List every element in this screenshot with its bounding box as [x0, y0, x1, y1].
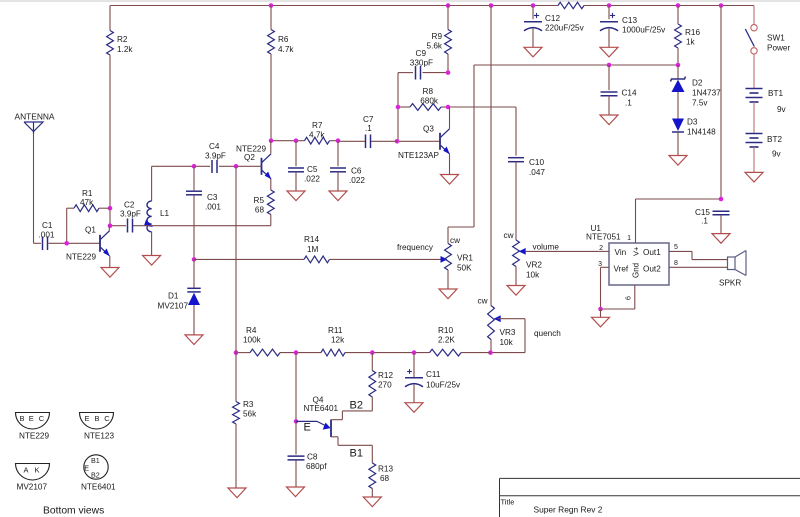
- svg-text:C7: C7: [363, 115, 374, 124]
- capacitor C5: [288, 165, 320, 184]
- capacitor C2: [120, 201, 141, 233]
- node top rail junction x=491: [489, 3, 494, 8]
- capacitor C3: [186, 191, 221, 211]
- svg-text:C8: C8: [307, 453, 318, 462]
- wire VR2 bottom: [515, 267, 517, 286]
- svg-text:C10: C10: [529, 158, 544, 167]
- svg-text:3: 3: [598, 261, 602, 268]
- ground Q1 emitter: [101, 268, 119, 278]
- svg-text:VR3: VR3: [500, 328, 516, 337]
- svg-text:C5: C5: [307, 165, 318, 174]
- svg-text:B1: B1: [350, 448, 363, 460]
- svg-text:C9: C9: [416, 49, 427, 58]
- wire SW1 to BT1: [753, 54, 755, 89]
- wire R14 left: [194, 258, 304, 260]
- wire C14 to ground: [608, 96, 610, 115]
- wire R7 right: [330, 140, 339, 142]
- border top edge: [0, 0, 800, 2]
- svg-text:5: 5: [674, 244, 678, 251]
- resistor R3: [233, 400, 258, 424]
- resistor R9: [427, 30, 452, 55]
- svg-text:56k: 56k: [243, 410, 257, 419]
- wire R5 bottom: [270, 215, 272, 226]
- wire U1 pin5 to speaker: [669, 244, 728, 260]
- svg-text:4.7k: 4.7k: [309, 131, 325, 140]
- svg-text:270: 270: [378, 381, 392, 390]
- wire R1 right: [99, 207, 110, 209]
- wire C8 top: [295, 421, 297, 454]
- wire C5 to ground: [295, 172, 297, 191]
- svg-text:D2: D2: [692, 79, 703, 88]
- svg-text:V+: V+: [632, 246, 641, 256]
- svg-text:cw: cw: [478, 297, 488, 306]
- node R8 left junction: [396, 105, 401, 110]
- capacitor C7: [363, 115, 374, 148]
- svg-text:6: 6: [626, 296, 633, 300]
- transistor Q4 NTE6401: [296, 396, 363, 460]
- legend NTE229 pinout: [16, 413, 50, 441]
- svg-text:3.9pF: 3.9pF: [120, 210, 141, 219]
- resistor R13: [369, 463, 394, 489]
- wire U1 gnd lead: [626, 285, 635, 309]
- ground U1: [592, 317, 610, 327]
- svg-text:volume: volume: [533, 243, 560, 252]
- resistor R16: [675, 24, 701, 48]
- wire R13 top: [371, 445, 373, 463]
- svg-text:1N4148: 1N4148: [687, 128, 716, 137]
- legend MV2107 pinout: [16, 464, 50, 492]
- svg-text:L1: L1: [160, 209, 170, 218]
- wire D1 to ground: [193, 305, 195, 335]
- wire C12 top: [532, 6, 534, 20]
- wire C3 bottom to D1 node: [193, 195, 195, 260]
- svg-text:K: K: [35, 466, 40, 475]
- svg-text:.1: .1: [701, 217, 708, 226]
- speaker SPKR: [719, 251, 746, 288]
- wire U1 ground stub: [600, 309, 602, 317]
- wire Q2 collector: [270, 141, 272, 154]
- svg-text:MV2107: MV2107: [17, 483, 48, 492]
- svg-text:C13: C13: [622, 16, 637, 25]
- svg-text:C12: C12: [545, 14, 560, 23]
- wire C13 to ground: [608, 29, 610, 48]
- wire R2 bottom to Q1 collector node: [109, 55, 111, 226]
- op-amp U1 NTE7051 box: [586, 224, 669, 285]
- svg-text:D3: D3: [687, 118, 698, 127]
- wire bias row: [236, 352, 491, 354]
- svg-text:Gnd: Gnd: [632, 263, 641, 278]
- ground VR1: [439, 289, 457, 299]
- wire L1 top: [151, 166, 153, 201]
- wire BT1 to BT2: [753, 102, 755, 134]
- transistor Q3: [398, 125, 450, 161]
- wire C14 top: [608, 65, 610, 90]
- capacitor C9: [410, 49, 433, 80]
- svg-text:A: A: [24, 466, 29, 475]
- capacitor C4: [205, 142, 226, 173]
- wire C11 top: [413, 353, 415, 377]
- ground C15: [712, 234, 730, 244]
- inductor L1: [147, 201, 170, 232]
- svg-text:R6: R6: [278, 35, 289, 44]
- svg-text:47k: 47k: [80, 198, 94, 207]
- wire VR2 wiper to U1 pin2: [526, 243, 597, 252]
- svg-text:10uF/25v: 10uF/25v: [426, 381, 461, 390]
- ground C5: [287, 191, 305, 201]
- ground D1: [185, 335, 203, 345]
- wire Q2 base node to bias row: [235, 166, 237, 352]
- wire R12 top: [371, 353, 373, 371]
- wire C12 to ground: [532, 29, 534, 48]
- wire R16 node horizontal: [474, 64, 678, 66]
- svg-text:9v: 9v: [777, 105, 787, 114]
- node C6 junction: [336, 138, 341, 143]
- resistor R12: [369, 371, 394, 398]
- svg-text:R9: R9: [432, 32, 443, 41]
- svg-text:10k: 10k: [526, 271, 540, 280]
- svg-text:68: 68: [380, 474, 390, 483]
- svg-text:NTE6401: NTE6401: [81, 483, 116, 492]
- svg-text:7.5v: 7.5v: [692, 99, 708, 108]
- svg-text:NTE6401: NTE6401: [304, 404, 339, 413]
- svg-text:R3: R3: [243, 400, 254, 409]
- wire top supply rail: [110, 5, 754, 7]
- potentiometer VR2: [504, 231, 543, 280]
- ground C8: [287, 487, 305, 497]
- wire R9 bottom to C9 node: [447, 54, 449, 73]
- legend NTE123 pinout: [80, 413, 115, 441]
- svg-text:9v: 9v: [772, 150, 782, 159]
- svg-text:R11: R11: [328, 326, 343, 335]
- wire R9 top: [447, 6, 449, 30]
- node top rail junction x=721: [719, 3, 724, 8]
- node R2/Q1 collector junction: [108, 223, 113, 228]
- svg-text:R7: R7: [312, 121, 323, 130]
- battery BT2: [746, 134, 783, 159]
- switch SW1: [745, 25, 790, 55]
- resistor R2: [107, 31, 134, 56]
- resistor R5: [254, 190, 275, 215]
- svg-text:3.9pF: 3.9pF: [205, 152, 226, 161]
- legend NTE6401 pinout: [81, 455, 116, 492]
- wire C3 top: [193, 166, 195, 191]
- ground D3: [669, 156, 687, 166]
- svg-text:E: E: [84, 464, 89, 473]
- node top rail junction x=448: [446, 3, 451, 8]
- wire U1 pin2 lead: [597, 245, 609, 252]
- svg-text:B2: B2: [91, 471, 100, 480]
- wire C11 to ground: [413, 385, 415, 403]
- svg-text:.001: .001: [39, 231, 55, 240]
- wire Q4 B2 to R12: [331, 411, 372, 420]
- svg-text:E: E: [304, 422, 311, 434]
- wire C7 left: [338, 140, 365, 142]
- wire R6 top: [270, 6, 272, 30]
- transistor Q1: [66, 226, 110, 262]
- ground L1: [143, 256, 161, 266]
- ground VR2: [507, 286, 525, 296]
- resistor R6: [268, 30, 295, 55]
- node L1 tap arrow: [144, 220, 153, 227]
- svg-text:R13: R13: [378, 465, 393, 474]
- svg-text:R14: R14: [304, 235, 319, 244]
- svg-text:C2: C2: [124, 201, 135, 210]
- svg-text:SW1: SW1: [767, 34, 785, 43]
- wire E branch: [295, 353, 297, 422]
- resistor R11: [321, 326, 345, 356]
- svg-text:1M: 1M: [307, 245, 319, 254]
- wire Q2 collector row: [271, 140, 305, 142]
- ground BT2: [745, 172, 763, 182]
- svg-text:VR1: VR1: [457, 254, 473, 263]
- title block: [500, 478, 800, 517]
- svg-text:Power: Power: [767, 44, 790, 53]
- battery BT1: [746, 89, 787, 115]
- node R4/R11 junction: [294, 350, 299, 355]
- svg-text:1N4737: 1N4737: [692, 89, 721, 98]
- svg-text:680k: 680k: [420, 97, 439, 106]
- diode D2 zener: [671, 77, 722, 108]
- resistor R7: [305, 121, 330, 144]
- node U1 ground junction: [598, 307, 603, 312]
- svg-text:cw: cw: [504, 231, 514, 240]
- node top rail junction x=678: [676, 3, 681, 8]
- svg-text:ANTENNA: ANTENNA: [15, 112, 55, 122]
- wire R1 left loop: [67, 208, 74, 243]
- node C5 junction: [294, 138, 299, 143]
- wire D2 to D3: [677, 92, 679, 119]
- svg-text:2: 2: [599, 245, 603, 252]
- svg-text:R10: R10: [438, 326, 453, 335]
- node R8/Q3 collector junction: [446, 105, 451, 110]
- capacitor C14: [601, 89, 637, 108]
- svg-text:BT2: BT2: [767, 135, 782, 144]
- wire BT2 to ground: [753, 147, 755, 172]
- capacitor C12: [524, 13, 585, 33]
- wire R2 top: [109, 6, 111, 31]
- svg-text:NTE229: NTE229: [66, 253, 96, 262]
- wire C6 top: [337, 141, 339, 167]
- resistor R14: [304, 235, 330, 263]
- diode D3: [672, 118, 716, 137]
- wire C7 right: [371, 140, 397, 142]
- wire D2 top: [677, 65, 679, 79]
- svg-text:C: C: [104, 414, 110, 423]
- svg-text:NTE7051: NTE7051: [586, 233, 621, 242]
- svg-text:SPKR: SPKR: [719, 279, 741, 288]
- svg-text:R4: R4: [246, 326, 257, 335]
- potentiometer VR1: [445, 236, 474, 273]
- node C4/Q2 base junction: [234, 164, 239, 169]
- ground Q3 emitter: [441, 175, 459, 185]
- node top rail junction x=609: [607, 3, 612, 8]
- svg-text:R2: R2: [117, 35, 128, 44]
- wire R14 right to VR1 wiper: [330, 243, 448, 263]
- wire Q3 base: [397, 140, 440, 142]
- capacitor C15: [695, 208, 730, 226]
- node R16/D2 junction: [676, 63, 681, 68]
- svg-text:C4: C4: [209, 142, 220, 151]
- antenna ANTENNA: [15, 112, 55, 134]
- capacitor C10: [508, 158, 545, 177]
- svg-text:Vref: Vref: [614, 265, 629, 274]
- node C15 junction: [719, 197, 724, 202]
- node top rail junction x=533: [531, 3, 536, 8]
- svg-text:R8: R8: [423, 87, 434, 96]
- svg-text:330pF: 330pF: [410, 59, 433, 68]
- capacitor C8: [288, 453, 328, 472]
- capacitor C1: [39, 221, 55, 250]
- ground C13: [600, 47, 618, 57]
- node R4 left junction: [234, 350, 239, 355]
- wire C9 right: [423, 72, 449, 74]
- node C3/C4 junction: [192, 164, 197, 169]
- node VR3 bottom junction: [488, 350, 493, 355]
- svg-text:.1: .1: [365, 124, 372, 133]
- wire R8 right: [441, 106, 448, 108]
- svg-text:12k: 12k: [331, 336, 345, 345]
- svg-text:2.2K: 2.2K: [438, 336, 455, 345]
- wire R16 top: [677, 6, 679, 25]
- svg-text:8: 8: [674, 260, 678, 267]
- svg-text:C1: C1: [42, 221, 53, 230]
- ground C6: [329, 191, 347, 201]
- wire antenna down: [34, 134, 42, 244]
- node C7/Q3 base junction: [395, 139, 400, 144]
- wire vertical to VR1 feed: [448, 65, 474, 243]
- svg-text:Q3: Q3: [423, 125, 434, 134]
- wire C8 to ground: [295, 460, 297, 487]
- capacitor C11: [405, 369, 461, 389]
- svg-text:NTE229: NTE229: [19, 432, 49, 441]
- transistor Q2: [236, 145, 271, 180]
- wire Q1 collector row: [110, 225, 271, 227]
- wire R8 node to C10: [448, 107, 516, 156]
- svg-text:C6: C6: [351, 167, 362, 176]
- ground C12: [524, 47, 542, 57]
- svg-text:.022: .022: [349, 176, 365, 185]
- svg-text:R16: R16: [685, 28, 700, 37]
- svg-text:.1: .1: [625, 99, 632, 108]
- node R12 junction: [370, 350, 375, 355]
- label quench: [534, 329, 561, 338]
- svg-text:B2: B2: [350, 400, 363, 412]
- svg-text:10k: 10k: [500, 338, 514, 347]
- potentiometer VR3: [478, 297, 516, 348]
- svg-text:C3: C3: [207, 193, 218, 202]
- wire U1 pin1: [627, 199, 721, 243]
- svg-text:1: 1: [627, 235, 631, 242]
- wire R6 bottom to Q2 collector node: [270, 54, 272, 141]
- wire U1 pin3 lead: [598, 261, 609, 268]
- ground R13: [363, 497, 381, 507]
- svg-text:Title: Title: [501, 498, 515, 507]
- node Q1 base junction: [64, 241, 69, 246]
- svg-text:1000uF/25v: 1000uF/25v: [622, 26, 666, 35]
- svg-text:C14: C14: [622, 89, 637, 98]
- svg-text:cw: cw: [450, 236, 460, 245]
- node C9/R9 junction: [446, 70, 451, 75]
- svg-text:R12: R12: [378, 371, 393, 380]
- wire C10 to VR2: [515, 162, 517, 240]
- node R1/R2 junction: [108, 206, 113, 211]
- svg-text:E: E: [85, 414, 90, 423]
- svg-text:BT1: BT1: [768, 89, 783, 98]
- wire Q1 collector: [108, 226, 110, 231]
- wire R3 to ground: [235, 424, 237, 488]
- node C14 tap: [607, 63, 612, 68]
- node top rail junction x=271: [269, 3, 274, 8]
- wire VR3 bottom: [490, 340, 492, 353]
- svg-text:680pf: 680pf: [306, 462, 327, 471]
- svg-text:1k: 1k: [686, 38, 696, 47]
- wire D1 top: [193, 259, 195, 288]
- svg-text:R5: R5: [254, 196, 265, 205]
- svg-text:.047: .047: [529, 168, 545, 177]
- wire R13 to ground: [371, 489, 373, 498]
- wire C5 top: [295, 141, 297, 167]
- resistor R4: [243, 326, 280, 356]
- svg-text:D1: D1: [168, 292, 179, 301]
- U1 pin labels: [614, 246, 662, 278]
- svg-text:B: B: [20, 414, 25, 423]
- wire L1 bottom to ground: [151, 232, 153, 256]
- svg-text:220uF/25v: 220uF/25v: [545, 24, 585, 33]
- wire D3 to ground: [677, 132, 679, 156]
- svg-text:frequency: frequency: [397, 243, 434, 252]
- node D1/R14 junction: [192, 257, 197, 262]
- svg-text:Out2: Out2: [643, 265, 661, 274]
- svg-text:Bottom views: Bottom views: [43, 506, 104, 517]
- wire Q1 emitter to ground: [109, 256, 111, 268]
- svg-text:E: E: [29, 414, 34, 423]
- label Bottom views: [43, 506, 104, 517]
- wire Q3 collector: [449, 107, 451, 129]
- svg-text:4.7k: 4.7k: [278, 45, 294, 54]
- resistor (unlabeled, top rail): [558, 2, 584, 8]
- svg-text:Q2: Q2: [244, 153, 255, 162]
- wire top rail to VR3: [490, 6, 492, 306]
- svg-text:5.6k: 5.6k: [427, 42, 443, 51]
- svg-text:VR2: VR2: [526, 261, 542, 270]
- capacitor C13: [600, 13, 666, 35]
- capacitor C6: [330, 167, 365, 186]
- svg-text:Q1: Q1: [85, 226, 96, 235]
- wire top rail to C15 node: [720, 6, 722, 200]
- wire C9 left and down: [398, 73, 413, 142]
- svg-text:MV2107: MV2107: [158, 302, 189, 311]
- wire R12 bottom: [371, 397, 373, 411]
- node Q2 collector junction: [269, 138, 274, 143]
- wire R16 bottom: [677, 48, 679, 65]
- wire R8 left: [398, 106, 410, 108]
- node C11 junction: [412, 350, 417, 355]
- svg-text:C: C: [39, 414, 45, 423]
- wire VR1 bottom: [447, 270, 449, 289]
- resistor R10: [430, 326, 462, 356]
- wire C15 bottom: [720, 215, 722, 234]
- wire C1 to Q1 base: [49, 242, 101, 244]
- svg-text:100k: 100k: [243, 336, 262, 345]
- resistor R8: [410, 87, 441, 110]
- wire top rail corner to SW1: [753, 6, 755, 25]
- diode D1 varactor: [158, 288, 201, 310]
- svg-text:Super Regn Rev 2: Super Regn Rev 2: [534, 505, 603, 515]
- svg-text:.022: .022: [304, 175, 320, 184]
- svg-text:B1: B1: [91, 456, 100, 465]
- wire R3 top: [235, 353, 237, 402]
- svg-text:.001: .001: [205, 203, 221, 212]
